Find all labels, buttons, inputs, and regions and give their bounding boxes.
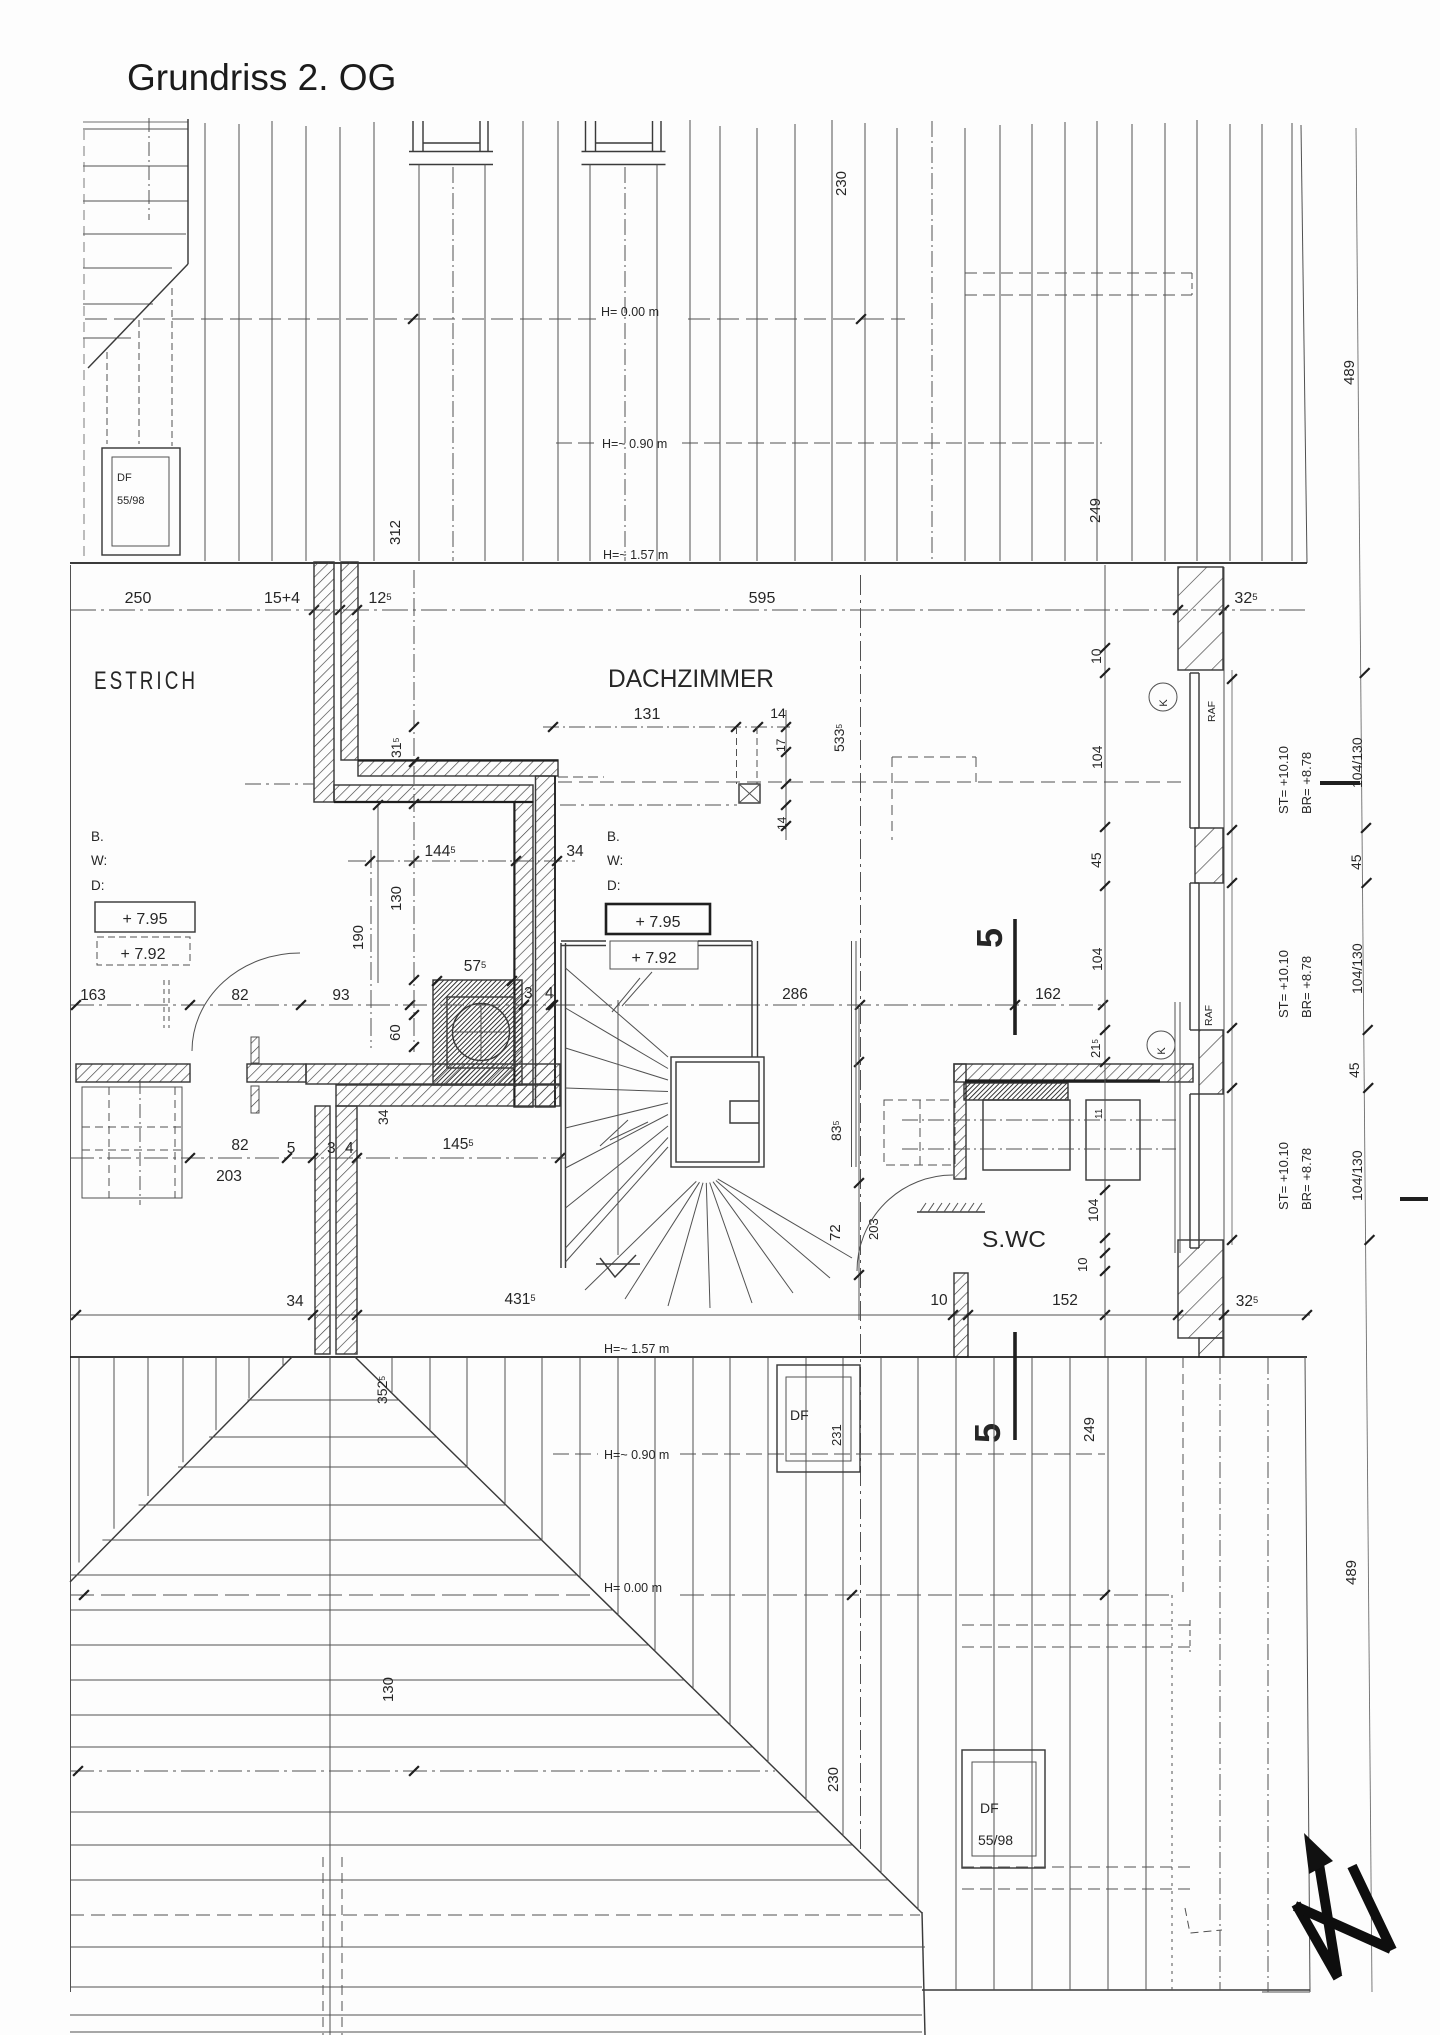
svg-text:W:: W: (91, 853, 107, 868)
svg-text:152: 152 (1052, 1292, 1078, 1309)
stair treads lower flight (585, 1179, 852, 1308)
svg-text:3: 3 (327, 1140, 336, 1157)
centerline dash-dot x860 (860, 575, 862, 1850)
swc dark vanity band (964, 1083, 1068, 1100)
svg-text:DACHZIMMER: DACHZIMMER (608, 665, 774, 693)
svg-text:BR= +8.78: BR= +8.78 (1299, 752, 1314, 814)
wall west partition upper leaf A (314, 562, 334, 802)
svg-text:5: 5 (969, 928, 1010, 948)
dash-dot board line (70, 1770, 775, 1772)
svg-text:162: 162 (1035, 986, 1061, 1003)
upper-left cross roof horizontal boards (83, 122, 188, 338)
stair landing outer (671, 1057, 764, 1167)
swc west wall leaf (954, 1064, 966, 1179)
K circle 1 (1149, 683, 1177, 711)
svg-text:203: 203 (216, 1168, 242, 1185)
bottom margin tick line (1262, 1991, 1310, 1993)
dashed projection rectangle top right (965, 273, 1192, 295)
window post x-box (739, 784, 760, 803)
upper-left window centerline (148, 118, 150, 220)
svg-text:55/98: 55/98 (117, 495, 145, 507)
svg-text:+ 7.95: + 7.95 (636, 914, 681, 931)
margin dash-dot bottom right (1267, 1358, 1269, 1992)
svg-text:489: 489 (1343, 1560, 1360, 1585)
dashed corner bottom right (1185, 1908, 1222, 1933)
stair break zigzag (610, 972, 652, 1140)
svg-text:11: 11 (1094, 1108, 1105, 1119)
swc door threshold hatch (917, 1203, 985, 1212)
stair walk line and arrow (617, 1000, 619, 1255)
dim chain x786 window (785, 710, 787, 840)
svg-text:82: 82 (231, 1137, 248, 1154)
dim row 131 window (543, 726, 790, 728)
svg-text:250: 250 (125, 590, 152, 607)
window post dashed (736, 727, 738, 784)
bold wall edge lines (358, 759, 558, 761)
svg-text:14: 14 (770, 705, 786, 721)
svg-text:130: 130 (388, 886, 405, 911)
svg-text:D:: D: (91, 878, 105, 893)
elevation box 7.95 left (95, 902, 195, 932)
swc centerlines (902, 1119, 1176, 1121)
upper-left hip diagonal (88, 264, 188, 368)
elevation box 7.92 right (610, 941, 698, 969)
svg-text:+ 7.92: + 7.92 (632, 950, 677, 967)
stair treads upper flight (566, 968, 669, 1262)
stair left wall double line (560, 943, 562, 1268)
svg-text:203: 203 (866, 1218, 881, 1240)
extension line x378 (377, 805, 379, 983)
dash-dot rafter centerlines (931, 121, 933, 561)
ridge vertical (329, 1357, 331, 2035)
bold margin dashes (1320, 781, 1360, 785)
stair landing inner (676, 1062, 759, 1162)
south wall piece at door (247, 1064, 306, 1082)
door jamb marks estrich (251, 1037, 259, 1063)
window 2 frame (1190, 883, 1199, 1030)
svg-text:4: 4 (345, 1140, 354, 1157)
north arrow (1295, 1864, 1392, 1978)
dim chain vertical x405 alcove (413, 570, 415, 1052)
wall west partition lower leaf B (336, 1106, 357, 1354)
svg-text:104: 104 (1089, 745, 1105, 769)
upper-left short rafters under hip (106, 352, 108, 444)
svg-text:+ 7.95: + 7.95 (123, 911, 168, 928)
outer wall sill line (1223, 567, 1225, 1357)
right wall pier mid (1195, 828, 1223, 883)
swc east inner wall face lines (1174, 1002, 1176, 1253)
bottom right building edge (1305, 1357, 1310, 1992)
dimension row y1158 (70, 1157, 565, 1159)
svg-text:93: 93 (332, 987, 349, 1004)
svg-text:249: 249 (1081, 1417, 1098, 1442)
svg-text:72: 72 (827, 1224, 844, 1241)
left short rafters bottom band (79, 1358, 283, 1563)
dimension row y610 line (70, 609, 1307, 611)
top band rafters (205, 120, 1292, 561)
extension dashes for 163 (163, 980, 165, 1028)
chimney top 2 (582, 121, 666, 561)
K circle 2 (1147, 1031, 1175, 1059)
section mark 5 top (1013, 919, 1017, 1035)
right wall pier top (1178, 567, 1223, 670)
svg-text:45: 45 (1348, 854, 1364, 870)
hip right diagonal (355, 1357, 922, 1913)
chimney block hatch (433, 980, 522, 1085)
dim chain x859 stair swc (858, 1008, 860, 1320)
svg-text:131: 131 (634, 706, 661, 723)
svg-text:45: 45 (1088, 852, 1104, 868)
svg-text:H= 0.00 m: H= 0.00 m (601, 305, 659, 319)
left margin line of top band (83, 130, 85, 560)
svg-text:H=~ 1.57 m: H=~ 1.57 m (604, 1342, 669, 1356)
stair right double line (751, 941, 753, 1057)
svg-text:10: 10 (930, 1292, 948, 1309)
svg-text:163: 163 (80, 987, 106, 1004)
wall west partition lower leaf A (315, 1106, 330, 1354)
svg-text:17: 17 (774, 738, 788, 752)
svg-text:104/130: 104/130 (1349, 1150, 1365, 1201)
bottom band rafters right of hip (392, 1358, 1220, 1990)
swc door pier below (954, 1273, 968, 1357)
svg-text:286: 286 (782, 986, 808, 1003)
wall west partition upper leaf B (341, 562, 358, 760)
svg-text:14: 14 (775, 816, 789, 830)
svg-text:10: 10 (1075, 1258, 1090, 1272)
svg-text:104/130: 104/130 (1349, 943, 1365, 994)
window 1 frame (1190, 673, 1199, 828)
dimension row y1005 (70, 1004, 1105, 1006)
svg-text:DF: DF (790, 1407, 809, 1423)
stair newel box (730, 1101, 759, 1123)
svg-text:H=~ 1.57 m: H=~ 1.57 m (603, 548, 668, 562)
svg-text:595: 595 (749, 590, 776, 607)
svg-text:RAF: RAF (1203, 1005, 1215, 1026)
wall jog horizontal leaf A (358, 760, 558, 776)
svg-text:3: 3 (524, 985, 533, 1002)
svg-text:60: 60 (387, 1024, 404, 1041)
svg-text:130: 130 (380, 1677, 397, 1702)
svg-text:S.WC: S.WC (982, 1226, 1046, 1252)
stairwell opening right edge double line (851, 941, 853, 1167)
roof window DF 231 (777, 1365, 860, 1472)
svg-text:34: 34 (375, 1109, 391, 1125)
svg-text:249: 249 (1087, 498, 1104, 523)
south wall upper leaf (306, 1064, 560, 1084)
dashed rafter x1183 (1182, 1358, 1184, 1595)
knee wall window estrich (82, 1080, 182, 1205)
kniestock dashed lines dachzimmer (558, 781, 1188, 783)
svg-text:34: 34 (286, 1293, 304, 1310)
chimney flue circle (453, 1004, 510, 1061)
dim row y861 alcove (348, 860, 575, 862)
right margin dimension line (1356, 128, 1372, 1992)
door swing arc estrich (192, 953, 300, 1051)
svg-text:104: 104 (1085, 1198, 1101, 1222)
dim chain vertical x371 (370, 850, 372, 1048)
svg-text:4: 4 (545, 985, 554, 1002)
eaves line bottom of plan (70, 1356, 1307, 1358)
level line H 0.90 top (556, 442, 598, 444)
section mark 5 bottom (1013, 1332, 1017, 1440)
svg-text:B.: B. (607, 829, 620, 844)
svg-text:34: 34 (566, 843, 584, 860)
dashed fixture rect dachzimmer low (884, 1100, 955, 1165)
left edge vertical of plan (70, 565, 72, 1992)
svg-text:K: K (1158, 699, 1170, 707)
svg-text:230: 230 (833, 171, 850, 196)
svg-text:82: 82 (231, 987, 248, 1004)
south wall west piece (76, 1064, 190, 1082)
top band right building edge (1301, 125, 1307, 563)
svg-text:190: 190 (350, 925, 367, 950)
svg-text:ST= +10.10: ST= +10.10 (1276, 950, 1291, 1018)
swc fixture 1 (983, 1100, 1070, 1170)
svg-text:5: 5 (967, 1423, 1008, 1443)
svg-text:ST= +10.10: ST= +10.10 (1276, 1142, 1291, 1210)
svg-text:ESTRICH: ESTRICH (94, 667, 198, 695)
right wall pier 3 (1199, 1030, 1223, 1094)
svg-text:H=~ 0.90 m: H=~ 0.90 m (602, 437, 667, 451)
dash-dot rafter x1220 (1219, 1358, 1221, 1990)
svg-text:DF: DF (980, 1800, 999, 1816)
dashed projection lines bottom 1 (962, 1624, 1192, 1626)
right margin ticks (1360, 668, 1370, 678)
south wall lower leaf (336, 1085, 560, 1106)
dashed board line (70, 1914, 920, 1916)
svg-text:+ 7.92: + 7.92 (121, 946, 166, 963)
svg-text:5: 5 (287, 1140, 296, 1157)
svg-text:B.: B. (91, 829, 104, 844)
right wall pier bottom (1178, 1240, 1223, 1338)
roof boards bottom plane (70, 1400, 925, 2032)
level line H 0.00 top (85, 318, 596, 320)
svg-text:104/130: 104/130 (1349, 737, 1365, 788)
hip left diagonal (70, 1357, 292, 1582)
swc fixture 2 (1086, 1100, 1140, 1180)
bottom eaves edge (922, 1989, 1310, 1991)
svg-text:312: 312 (387, 520, 404, 545)
upper-left roof edge vertical (187, 119, 189, 264)
wall jog horizontal leaf B (334, 785, 533, 802)
dimension row y1315 (70, 1314, 1310, 1316)
level line H 0.00 bottom dashed (70, 1594, 596, 1596)
dim chain x1105 (1104, 565, 1106, 1357)
svg-text:BR= +8.78: BR= +8.78 (1299, 956, 1314, 1018)
svg-text:K: K (1156, 1047, 1168, 1055)
svg-text:230: 230 (825, 1767, 842, 1792)
swc north wall band (954, 1064, 1193, 1082)
svg-text:H=~ 0.90 m: H=~ 0.90 m (604, 1448, 669, 1462)
ridge dashed pair (322, 1857, 324, 2035)
right wall pier bottom stub (1199, 1338, 1223, 1357)
svg-text:D:: D: (607, 878, 621, 893)
dashed vertical x1172 low (1171, 1595, 1173, 1990)
level line H 0.90 bottom (553, 1453, 598, 1455)
svg-text:15+4: 15+4 (264, 590, 300, 607)
svg-text:ST= +10.10: ST= +10.10 (1276, 746, 1291, 814)
wall east of alcove leaf A (514, 802, 533, 1107)
svg-text:BR= +8.78: BR= +8.78 (1299, 1148, 1314, 1210)
swc vanity bold edge line (965, 1079, 1160, 1082)
elevation box 7.92 left (97, 937, 190, 965)
hip corner vertical (922, 1912, 925, 2035)
svg-text:231: 231 (829, 1424, 844, 1446)
svg-text:Grundriss 2. OG: Grundriss 2. OG (127, 57, 396, 98)
wall east of alcove leaf B (536, 776, 556, 1107)
svg-text:104: 104 (1089, 947, 1105, 971)
svg-text:RAF: RAF (1206, 701, 1218, 722)
dim chain x1232 (1231, 670, 1233, 1245)
eaves line between top band and plan (70, 562, 1307, 564)
elevation box 7.95 right (606, 904, 710, 934)
svg-text:45: 45 (1346, 1062, 1362, 1078)
svg-text:489: 489 (1341, 360, 1358, 385)
roof window DF 55/98 bottom (962, 1750, 1045, 1868)
svg-text:DF: DF (117, 472, 132, 484)
svg-text:H= 0.00 m: H= 0.00 m (604, 1581, 662, 1595)
swc door swing arc (857, 1175, 953, 1271)
svg-text:W:: W: (607, 853, 623, 868)
svg-text:55/98: 55/98 (978, 1832, 1013, 1848)
svg-text:10: 10 (1088, 648, 1104, 664)
window 3 frame swc (1190, 1094, 1199, 1248)
stair top double line (561, 940, 606, 942)
dashed projection lines bottom 2 (962, 1866, 1192, 1868)
chimney inner box (447, 997, 515, 1068)
chimney top 1 (409, 121, 493, 561)
roof window DF 55/98 top-left (102, 448, 180, 555)
